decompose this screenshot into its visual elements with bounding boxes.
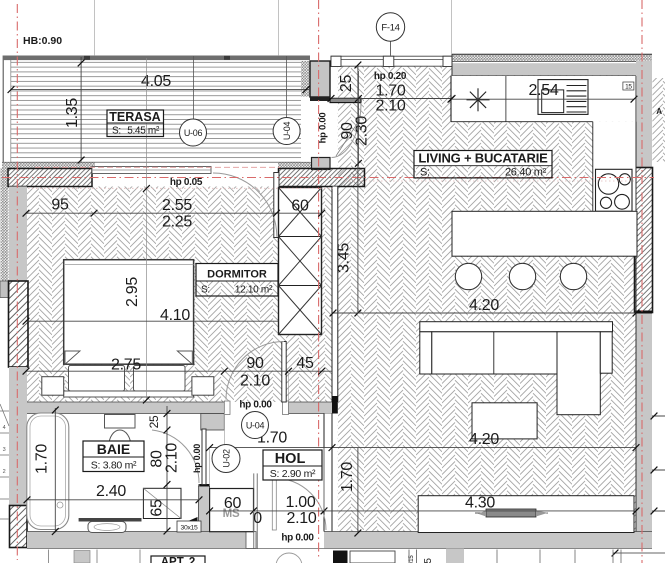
entry door frame lines <box>253 473 255 549</box>
kitchen north wall stipple band <box>452 53 652 55</box>
dormitor door jamb left <box>224 401 230 415</box>
svg-text:65: 65 <box>149 499 166 517</box>
sofa back <box>420 322 613 332</box>
witness lines <box>94 0 96 56</box>
svg-text:0: 0 <box>253 510 262 527</box>
dim 4.20 upper <box>333 312 636 314</box>
svg-text:A: A <box>656 107 662 116</box>
dormitor herringbone floor <box>27 187 332 403</box>
svg-text:x15: x15 <box>409 555 415 563</box>
radiator label 30x15 <box>177 521 201 532</box>
bar stool 3 <box>560 263 586 289</box>
entry door leaf <box>272 478 276 530</box>
bar stool 2 <box>509 263 535 289</box>
svg-text:1.35: 1.35 <box>64 98 81 128</box>
svg-text:F-14: F-14 <box>381 23 399 34</box>
svg-text:60: 60 <box>224 495 242 512</box>
svg-text:95: 95 <box>51 197 69 214</box>
dim 2.75 / 90 / 45 <box>26 370 332 372</box>
stipple band right <box>278 162 311 169</box>
red axis line horizontal <box>2 177 654 179</box>
node U-02 <box>212 445 240 473</box>
svg-text:2.55: 2.55 <box>162 197 192 214</box>
living herringbone floor <box>338 66 636 531</box>
red axis line left <box>16 4 18 560</box>
toilet <box>105 415 136 429</box>
left wall hatched block baie <box>10 506 28 548</box>
dormitor door jamb right <box>283 401 289 415</box>
bottom strip below wall <box>333 551 348 563</box>
svg-text:4.05: 4.05 <box>141 73 171 90</box>
label box APT 2 <box>151 556 205 563</box>
fridge icon <box>538 80 588 115</box>
svg-text:2.40: 2.40 <box>96 483 126 500</box>
dim 1.70 baie <box>54 408 56 533</box>
svg-text:HB:0.90: HB:0.90 <box>23 35 62 47</box>
bed <box>64 260 194 365</box>
dim 3.45 <box>357 65 359 313</box>
stipple band left <box>2 162 95 169</box>
svg-text:3: 3 <box>3 447 6 453</box>
svg-text:U-02: U-02 <box>222 449 232 468</box>
shower square <box>143 488 181 518</box>
label box TERASA <box>107 110 164 123</box>
dim 90/2.30 terasa door <box>357 71 359 166</box>
svg-text:25: 25 <box>147 415 161 428</box>
node U-04 hol <box>242 412 269 439</box>
right wall grey upper <box>636 61 652 168</box>
svg-text:2.75: 2.75 <box>111 357 141 374</box>
svg-text:S:: S: <box>112 126 121 137</box>
tv set <box>475 512 548 514</box>
node F-14 <box>390 41 392 55</box>
svg-text:U-04: U-04 <box>246 421 265 431</box>
svg-text:90: 90 <box>246 355 264 372</box>
svg-text:TERASA: TERASA <box>109 110 160 124</box>
left wall grey (baie) <box>9 367 27 506</box>
svg-text:S: 2.90 m²: S: 2.90 m² <box>270 468 316 480</box>
nightstand right <box>192 377 214 396</box>
node U-06 <box>193 56 195 119</box>
dim 1.70 living vertical <box>357 448 359 533</box>
sofa left armrest <box>420 332 432 374</box>
nightstand left <box>42 377 64 396</box>
sofa chaise <box>557 332 600 415</box>
terasa pillar <box>310 61 330 97</box>
kitchen north wall grey <box>452 63 652 75</box>
bottom wall west <box>27 532 246 549</box>
wash basin <box>88 522 126 533</box>
svg-text:15: 15 <box>625 84 632 91</box>
svg-text:5: 5 <box>423 558 434 563</box>
svg-text:45: 45 <box>296 355 314 372</box>
svg-text:hp 0.05: hp 0.05 <box>170 177 203 188</box>
wardrobe <box>279 188 322 335</box>
vanity counter <box>79 518 142 522</box>
red axis line right <box>641 0 643 563</box>
staircase strip <box>0 410 9 412</box>
headboard <box>64 391 194 397</box>
U-06 door leaf <box>274 173 279 238</box>
neighbour apartment floor patch top right <box>653 78 665 162</box>
svg-text:5.45 m²: 5.45 m² <box>127 126 160 137</box>
svg-text:2.54: 2.54 <box>529 82 559 99</box>
svg-text:60: 60 <box>291 198 309 215</box>
entry door frame pocket <box>246 532 256 549</box>
svg-text:12.10 m²: 12.10 m² <box>235 285 273 296</box>
baie/hol wall lower <box>198 486 209 532</box>
svg-text:26.40 m²: 26.40 m² <box>505 166 547 178</box>
dim 2.40 baie <box>27 499 199 501</box>
svg-text:hp 0.00: hp 0.00 <box>318 113 329 144</box>
bathtub <box>27 413 69 530</box>
svg-text:2.10: 2.10 <box>240 373 270 390</box>
bed fold right <box>177 351 192 364</box>
svg-text:3.45: 3.45 <box>336 243 353 273</box>
dim line 4.10 dormitor <box>26 320 279 322</box>
svg-text:U-04: U-04 <box>282 122 292 141</box>
svg-text:4.10: 4.10 <box>160 307 190 324</box>
radiator wedge <box>180 517 198 525</box>
svg-text:4.30: 4.30 <box>465 495 495 512</box>
dormitor door leaf <box>282 342 286 403</box>
right wall hatched section <box>635 168 653 313</box>
left wall hatched pier <box>9 281 29 367</box>
svg-text:2.10: 2.10 <box>376 98 406 115</box>
kitchen counter top <box>451 76 637 122</box>
kitchen island <box>452 211 637 256</box>
baie door leaf <box>202 429 206 485</box>
red axis line centre <box>318 0 320 560</box>
dim 1.35 terasa <box>80 57 82 162</box>
svg-text:S:: S: <box>420 166 430 178</box>
terasa door sill <box>92 167 211 174</box>
entry door arc <box>274 478 326 530</box>
label box BAIE <box>83 441 144 472</box>
pale dotted hp line dormitor <box>28 187 333 189</box>
terasa top wall bar <box>3 56 310 61</box>
dim 2.95 <box>143 185 150 192</box>
svg-text:U-06: U-06 <box>184 128 203 138</box>
svg-text:APT. 2: APT. 2 <box>161 557 196 563</box>
svg-text:hp 0.20: hp 0.20 <box>374 71 407 82</box>
stipple column left <box>1 169 9 282</box>
svg-text:1.70: 1.70 <box>34 444 51 474</box>
svg-text:hp 0.00: hp 0.00 <box>192 444 202 473</box>
stove <box>596 169 633 211</box>
baie door arc <box>152 430 199 483</box>
label box LIVING + BUCATARIE <box>414 151 552 166</box>
lintel right hatched <box>279 169 365 187</box>
red dashed door sill line <box>35 166 280 168</box>
witness line vertical bed/terasa <box>145 58 147 401</box>
dim 2.54 counter <box>451 98 635 100</box>
dim 1.70/2.10 living window <box>331 98 452 100</box>
U-04 terasa door leaf <box>330 98 361 102</box>
svg-text:2.95: 2.95 <box>124 277 141 307</box>
terasa deck floor <box>11 60 301 162</box>
svg-text:hp 0.00: hp 0.00 <box>281 533 314 544</box>
washing machine <box>210 489 254 532</box>
tv console <box>418 496 634 533</box>
label 15 <box>623 82 634 90</box>
svg-text:hp 0.00: hp 0.00 <box>239 400 272 411</box>
svg-text:S:: S: <box>201 285 210 296</box>
dormitor/baie wall west part <box>27 402 224 414</box>
left small grey block <box>0 281 9 298</box>
right outside dim marks <box>652 415 665 417</box>
svg-text:4.20: 4.20 <box>469 431 499 448</box>
svg-text:S: 3.80 m²: S: 3.80 m² <box>91 460 137 472</box>
sofa seat <box>432 332 557 374</box>
U-06 door arc <box>213 173 277 237</box>
bottom wall east <box>324 532 652 549</box>
svg-text:BAIE: BAIE <box>97 441 130 457</box>
right wall black tick <box>635 311 653 314</box>
svg-text:2.10: 2.10 <box>287 510 317 527</box>
coffee table <box>472 403 537 439</box>
svg-text:1.70: 1.70 <box>339 462 356 492</box>
dormitor/baie wall east part <box>288 402 332 414</box>
label box DORMITOR <box>196 264 278 282</box>
dim 4.05 terasa <box>11 89 310 91</box>
U-04 terasa door arc <box>332 103 362 158</box>
bed fold left <box>65 351 80 364</box>
svg-text:LIVING + BUCATARIE: LIVING + BUCATARIE <box>418 151 548 166</box>
terasa right stipple <box>301 61 310 97</box>
bar stool 1 <box>455 263 481 289</box>
right wall grey lower <box>636 314 652 549</box>
node U-04 terasa <box>286 56 288 118</box>
svg-text:DORMITOR: DORMITOR <box>207 269 267 281</box>
wall stub baie/hol top <box>201 414 225 431</box>
dim 95 / 2.55 / 2.25 / 60 <box>26 212 322 214</box>
svg-text:1.00: 1.00 <box>286 494 316 511</box>
living north window <box>331 56 452 66</box>
svg-text:2.25: 2.25 <box>162 214 192 231</box>
left wall grey (dormitor) <box>9 187 27 282</box>
dim 25/80/65/2.10 baie door <box>166 406 168 531</box>
svg-text:HOL: HOL <box>275 451 306 467</box>
sink symbol <box>478 99 490 101</box>
dormitor door arc <box>226 342 284 400</box>
svg-text:2.10: 2.10 <box>164 443 181 473</box>
terasa door block <box>312 158 331 170</box>
pillow left <box>69 366 125 392</box>
dim 60 / 1.00 / 4.30 line <box>210 510 636 512</box>
living west wall <box>332 187 338 403</box>
dim 1.70 hol <box>210 447 333 449</box>
svg-text:2.30: 2.30 <box>354 116 371 146</box>
dim 4.20 lower <box>333 447 636 449</box>
pillow right <box>134 366 186 392</box>
label box HOL <box>263 450 322 480</box>
svg-text:4: 4 <box>3 425 6 431</box>
svg-text:30x15: 30x15 <box>180 525 198 532</box>
svg-text:2: 2 <box>3 469 6 475</box>
svg-text:25: 25 <box>338 75 355 93</box>
hol/living wall <box>324 414 332 532</box>
lintel left hatched <box>8 169 92 187</box>
svg-text:4.20: 4.20 <box>469 297 499 314</box>
living west wall black block <box>332 396 338 414</box>
door arc fragment bottom <box>276 553 302 563</box>
sofa right armrest <box>600 332 612 373</box>
